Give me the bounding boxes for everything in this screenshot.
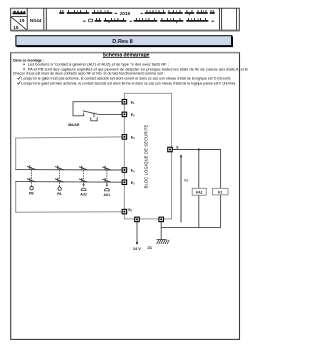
svg-text:Vs: Vs [184,179,189,183]
svg-text:KA1: KA1 [196,190,203,194]
svg-text:Les boutons à ''contact à géné: Les boutons à ''contact à générer (AU1 e… [28,63,169,67]
svg-text:D.Res 8: D.Res 8 [112,39,133,45]
svg-text:Lorsqu'on le galet est bien ac: Lorsqu'on le galet est bien actionné, le… [21,81,236,85]
svg-text:AU1: AU1 [103,193,110,197]
svg-text:PA et PB sont des capteurs exp: PA et PB sont des capteurs exploités et … [28,67,248,71]
svg-text:PA: PA [57,192,62,196]
svg-text:19: 19 [13,25,19,30]
svg-text:MA/AR: MA/AR [68,123,80,127]
svg-text:E2: E2 [131,113,135,118]
svg-text:24 V: 24 V [133,247,141,251]
svg-text:2019: 2019 [120,11,131,16]
svg-text:PB: PB [29,192,34,196]
svg-text:AU2: AU2 [80,193,87,197]
svg-text:NS44: NS44 [30,18,42,23]
svg-text:Lorsqu'on le galet n'est pas a: Lorsqu'on le galet n'est pas actionné, l… [21,77,231,81]
svg-text:E3: E3 [131,136,135,141]
svg-text:Chacun d'eux est muni de deux: Chacun d'eux est muni de deux contacts a… [13,72,165,76]
svg-text:19: 19 [19,18,25,23]
svg-text:BLOC LOGIQUE DE SECURITE: BLOC LOGIQUE DE SECURITE [143,124,148,188]
svg-text:K1: K1 [218,190,222,194]
